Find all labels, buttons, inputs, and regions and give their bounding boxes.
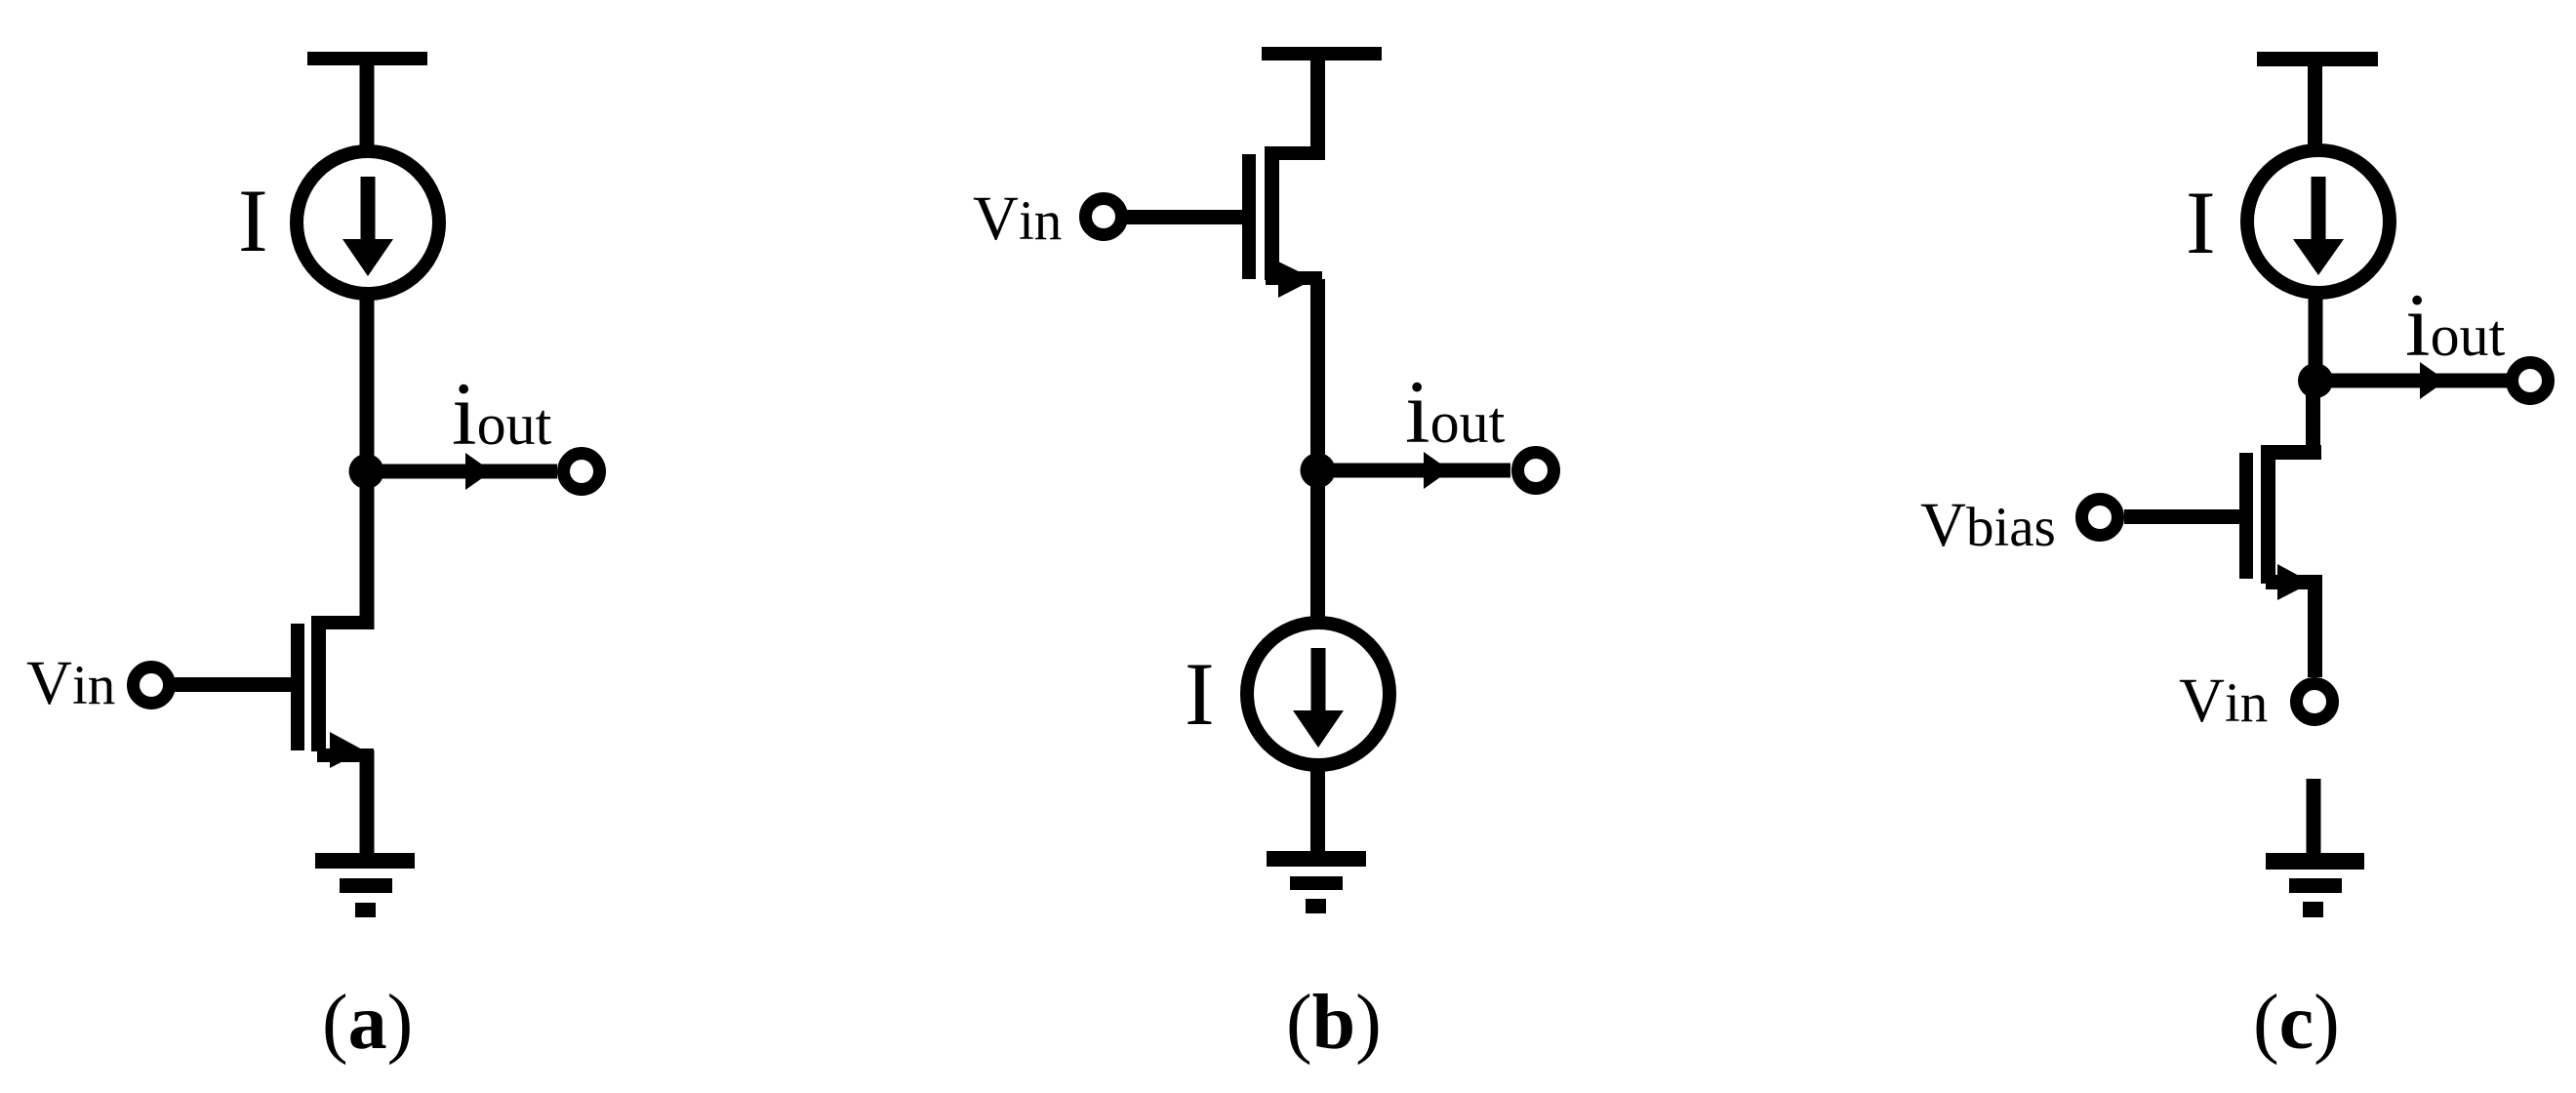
wire iout output (a) (366, 465, 557, 479)
transistor M1 source connection (c) (2266, 575, 2322, 589)
terminal Vin open circle (c) (2297, 684, 2333, 720)
transistor M1 source arrow (c) (2277, 564, 2312, 600)
ground bar 1 (b) (1267, 851, 1366, 867)
current source I arrow head (a) (342, 239, 393, 276)
current source I circle (b) (1247, 623, 1389, 765)
wire gate of M1 to Vbias terminal (c) (2124, 509, 2240, 524)
wire VDD to drain of M1 (b) (1310, 59, 1325, 153)
wire output node to current source I (b) (1310, 470, 1325, 619)
terminal iout open circle (a) (564, 454, 600, 490)
wire VDD to current source I (a) (360, 63, 375, 146)
ground bar 1 (a) (315, 853, 415, 869)
wire iout output (c) (2315, 374, 2507, 388)
wire VDD to current source I (c) (2308, 64, 2322, 146)
node output junction dot (a) (349, 454, 384, 489)
transistor M1 source arrow (b) (1278, 262, 1314, 298)
terminal iout open circle (c) (2513, 363, 2549, 399)
transistor M1 drain connection (b) (1270, 146, 1325, 160)
svg-text:Vin: Vin (26, 648, 115, 718)
wire current source to drain of M1 (a) (360, 298, 375, 629)
svg-text:Vin: Vin (973, 183, 1062, 254)
transistor M1 channel bar (c) (2261, 452, 2275, 584)
wire iout output (b) (1317, 464, 1510, 478)
power rail VDD (c) (2257, 52, 2378, 66)
ground bar 2 (c) (2289, 878, 2342, 893)
terminal Vbias open circle (c) (2082, 500, 2118, 536)
wire gate of M1 to Vin terminal (a) (175, 677, 292, 692)
transistor M1 source connection (b) (1266, 271, 1322, 285)
transistor M1 drain connection (c) (2261, 445, 2321, 460)
transistor M1 gate bar (b) (1242, 154, 1256, 279)
ground bar 3 (a) (355, 903, 376, 917)
current source I arrow stem (c) (2312, 177, 2326, 241)
svg-text:I: I (1185, 644, 1215, 744)
ground bar 3 (b) (1306, 899, 1326, 913)
node output junction dot (c) (2298, 363, 2333, 398)
svg-text:Vin: Vin (2179, 666, 2268, 736)
terminal iout open circle (b) (1518, 453, 1554, 489)
transistor M1 gate bar (a) (291, 624, 304, 750)
power rail VDD (a) (307, 52, 427, 65)
current source I arrow head (b) (1293, 710, 1344, 748)
arrow iout direction (c) (2420, 362, 2446, 399)
transistor M1 drain connection (a) (311, 616, 374, 629)
wire gate of M1 to Vin terminal (b) (1127, 210, 1244, 224)
terminal Vin open circle (b) (1086, 199, 1122, 235)
wire source of M1 to ground (a) (360, 750, 375, 855)
current source I arrow stem (a) (361, 177, 376, 241)
current source I circle (a) (297, 151, 439, 294)
ground bar 3 (c) (2303, 902, 2323, 917)
terminal Vin open circle (a) (134, 668, 170, 704)
wire current source to ground (b) (1310, 769, 1325, 853)
svg-text:I: I (2186, 173, 2216, 272)
arrow iout direction (a) (465, 453, 492, 490)
svg-text:I: I (238, 171, 268, 270)
arrow iout direction (b) (1424, 452, 1450, 489)
wire current source to output node (c) (2309, 298, 2323, 390)
current source I circle (c) (2247, 150, 2390, 293)
ground bar 2 (a) (340, 878, 392, 893)
svg-text:Vbias: Vbias (1920, 490, 2056, 560)
wire source of M1 to Vin terminal (c) (2308, 583, 2322, 677)
current source I arrow stem (b) (1311, 648, 1326, 712)
wire output node to drain of M1 (c) (2306, 381, 2320, 460)
transistor M1 channel bar (a) (311, 623, 326, 751)
node output junction dot (b) (1301, 453, 1336, 488)
svg-text:(a): (a) (322, 980, 413, 1066)
ground bar 2 (b) (1290, 876, 1343, 890)
transistor M1 source connection (a) (317, 749, 374, 762)
wire source of M1 to output node (b) (1310, 279, 1325, 474)
current source I arrow head (c) (2293, 239, 2344, 275)
svg-text:(c): (c) (2253, 980, 2340, 1066)
ground lead stub (c) (2307, 779, 2321, 855)
svg-text:(b): (b) (1286, 980, 1382, 1066)
transistor M1 source arrow (a) (330, 732, 364, 768)
transistor M1 channel bar (b) (1265, 146, 1279, 280)
transistor M1 gate bar (c) (2239, 453, 2253, 579)
power rail VDD (b) (1262, 47, 1382, 61)
ground bar 1 (c) (2266, 853, 2364, 870)
